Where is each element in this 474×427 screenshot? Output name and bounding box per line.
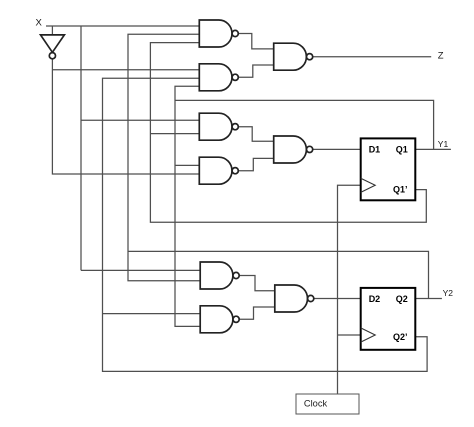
NAND gate G5 (199, 157, 238, 184)
wire G2 output to G3 bottom input (238, 65, 273, 77)
wire G3 output to node Z (313, 56, 431, 58)
NAND gate G1 (199, 20, 238, 47)
NAND gate G6 (274, 136, 313, 163)
wire Q1 branch to G5 top input (175, 164, 199, 166)
svg-text:D1: D1 (369, 145, 381, 155)
NAND gate G9 (275, 285, 314, 312)
wire G9 output to FF2 D input (net D2) (314, 298, 361, 300)
wire Q1' branch to G4 bottom input (150, 133, 199, 135)
NAND gate G2 (199, 64, 238, 91)
wire G4 output to G6 top input (238, 127, 273, 142)
wire Q1 output stub to node Y1 (415, 148, 451, 150)
wire X to G4 top input (81, 119, 199, 121)
svg-text:X: X (36, 18, 43, 29)
svg-text:Q1: Q1 (396, 145, 408, 155)
svg-text:Q2: Q2 (396, 294, 408, 304)
wire X' from inverter down to G5 bottom input (52, 59, 199, 174)
NAND gate G4 (199, 113, 238, 140)
flip-flop U2 clock triangle (361, 328, 376, 342)
svg-text:Q2’: Q2’ (393, 332, 408, 342)
svg-text:Clock: Clock (304, 399, 328, 409)
svg-text:Z: Z (438, 51, 444, 62)
flip-flop U2 box (D2/Q2) (361, 288, 416, 350)
wire G7 output to G9 top input (239, 276, 275, 291)
NAND gate G8 (200, 306, 239, 333)
wire Q1 feedback from FF1 output junction (175, 100, 434, 149)
wire G5 output to G6 bottom input (238, 158, 273, 170)
NAND gate G7 (200, 262, 239, 289)
svg-text:D2: D2 (369, 294, 381, 304)
svg-text:Q1’: Q1’ (393, 185, 408, 195)
clock source box (296, 394, 359, 414)
wire G6 output to FF1 D input (net D1) (313, 148, 361, 150)
wire Q2 feedback from FF2 output junction (128, 251, 429, 298)
svg-text:Y2: Y2 (443, 288, 454, 298)
flip-flop U1 clock triangle (361, 178, 376, 192)
wire X to G7 top input (81, 269, 200, 271)
wire X vertical bus (80, 26, 82, 270)
wire clock branch to FF2 clock pin (338, 334, 361, 336)
svg-text:Y1: Y1 (438, 139, 449, 149)
wire X' branch to G2 top input (52, 69, 199, 71)
wire Q1 bus from G2 bottom input down to G8 bottom input (175, 86, 200, 326)
wire Q2' branch to G8 top input (103, 313, 201, 315)
wire G8 output to G9 bottom input (239, 307, 275, 319)
wire X stub down to inverter (51, 26, 53, 35)
inverter INV1 (41, 35, 65, 59)
wire clock vertical to FF1 clock pin (338, 185, 361, 394)
wire G1 output to G3 top input (238, 34, 273, 49)
wire Q2 bus from G1 middle input down to G7 bottom input (128, 34, 200, 280)
wire Q2' from FF2 output around to G2 middle input (103, 78, 428, 371)
flip-flop U1 box (D1/Q1) (361, 138, 416, 200)
wire X input to G1 top input (46, 25, 199, 27)
wire Q1' from FF1 output around to G1 bottom input (150, 43, 426, 223)
wire Q2 output stub to node Y2 (415, 298, 442, 300)
NAND gate G3 (274, 43, 313, 70)
